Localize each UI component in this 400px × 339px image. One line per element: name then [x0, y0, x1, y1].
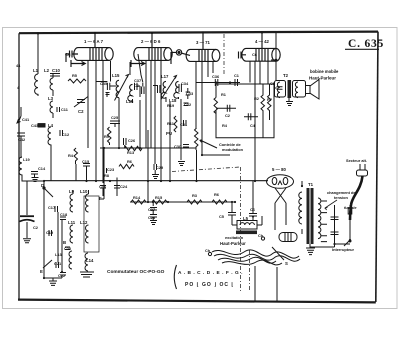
- svg-text:C27: C27: [148, 207, 155, 212]
- svg-text:R7: R7: [267, 97, 272, 102]
- svg-text:R15: R15: [155, 195, 163, 200]
- svg-text:Interrupteur: Interrupteur: [332, 247, 355, 252]
- svg-text:L14: L14: [86, 258, 94, 263]
- svg-text:Haut-Parleur: Haut-Parleur: [309, 76, 336, 81]
- svg-text:C31: C31: [180, 122, 188, 127]
- svg-text:F: F: [99, 196, 102, 201]
- svg-text:C43: C43: [31, 123, 39, 128]
- svg-text:excitation: excitation: [225, 235, 244, 240]
- svg-text:R3: R3: [192, 193, 198, 198]
- svg-text:C33: C33: [186, 91, 194, 96]
- svg-text:C24: C24: [120, 184, 128, 189]
- svg-text:C2: C2: [33, 225, 39, 230]
- svg-text:C6: C6: [65, 52, 71, 57]
- svg-text:C36: C36: [212, 74, 220, 79]
- svg-text:L15: L15: [112, 73, 120, 78]
- svg-text:C2: C2: [78, 109, 84, 114]
- svg-text:C42: C42: [18, 137, 26, 142]
- svg-text:1 — 6 A 7: 1 — 6 A 7: [84, 39, 104, 44]
- svg-text:L5: L5: [243, 216, 249, 221]
- svg-text:3 — 71: 3 — 71: [196, 40, 210, 45]
- svg-text:C4: C4: [250, 123, 256, 128]
- svg-text:C23: C23: [107, 167, 115, 172]
- svg-text:R6: R6: [214, 192, 220, 197]
- svg-text:C11: C11: [61, 107, 69, 112]
- svg-text:A . B . C . D . E . F . G .: A . B . C . D . E . F . G .: [178, 270, 243, 276]
- svg-text:Secteur alt.: Secteur alt.: [346, 158, 367, 163]
- svg-text:R1: R1: [221, 92, 227, 97]
- svg-text:C12: C12: [62, 132, 70, 137]
- svg-text:C1: C1: [234, 73, 240, 78]
- svg-text:R9: R9: [104, 134, 110, 139]
- svg-text:L16: L16: [126, 99, 134, 104]
- svg-text:C16: C16: [99, 184, 107, 189]
- svg-text:R14: R14: [133, 195, 141, 200]
- svg-text:C5: C5: [219, 214, 225, 219]
- svg-text:C15: C15: [82, 159, 90, 164]
- svg-text:L12: L12: [80, 220, 88, 225]
- svg-text:R6: R6: [127, 159, 133, 164]
- svg-text:C2: C2: [225, 113, 231, 118]
- svg-text:C26: C26: [128, 138, 136, 143]
- svg-text:L13: L13: [55, 252, 63, 257]
- svg-text:C34: C34: [181, 81, 189, 86]
- svg-text:Ch: Ch: [205, 248, 211, 253]
- svg-text:PU: PU: [166, 131, 172, 136]
- svg-text:Commutateur OC-PO-GO: Commutateur OC-PO-GO: [107, 269, 165, 275]
- svg-text:C6: C6: [250, 207, 256, 212]
- svg-text:C19: C19: [46, 230, 54, 235]
- svg-text:L19: L19: [23, 157, 31, 162]
- svg-text:C18: C18: [60, 212, 68, 217]
- svg-text:E: E: [40, 269, 43, 274]
- svg-text:D: D: [41, 183, 44, 188]
- svg-text:T1: T1: [308, 182, 314, 187]
- svg-text:L11: L11: [68, 220, 76, 225]
- svg-text:C37: C37: [134, 78, 141, 83]
- svg-text:L2: L2: [44, 68, 50, 73]
- svg-text:C30: C30: [174, 144, 181, 149]
- svg-text:R13: R13: [127, 150, 135, 155]
- svg-text:R4: R4: [222, 123, 228, 128]
- svg-text:Haut-Parleur: Haut-Parleur: [220, 241, 246, 246]
- svg-text:L3: L3: [48, 96, 54, 101]
- svg-text:R8: R8: [104, 173, 110, 178]
- svg-text:C41: C41: [22, 117, 30, 122]
- svg-text:C22: C22: [58, 273, 66, 278]
- svg-text:L17: L17: [161, 74, 169, 79]
- svg-text:4 — 42: 4 — 42: [255, 39, 269, 44]
- svg-text:S: S: [285, 261, 288, 266]
- svg-text:C35: C35: [100, 81, 108, 86]
- svg-text:T2: T2: [283, 73, 289, 78]
- svg-text:PO ⌊ GO ⌋ OC ⌊: PO ⌊ GO ⌋ OC ⌊: [185, 282, 234, 288]
- svg-text:5 — 80: 5 — 80: [272, 167, 286, 172]
- svg-text:C6: C6: [252, 52, 258, 57]
- svg-text:C32: C32: [184, 102, 192, 107]
- svg-text:Ch: Ch: [258, 233, 264, 238]
- svg-text:B: B: [63, 240, 66, 245]
- svg-text:L4: L4: [48, 123, 54, 128]
- svg-text:C10: C10: [52, 68, 60, 73]
- svg-text:bobine mobile: bobine mobile: [310, 69, 339, 74]
- svg-text:R11: R11: [167, 121, 175, 126]
- svg-text:2 — 6 D 6: 2 — 6 D 6: [141, 39, 161, 44]
- svg-text:C20: C20: [64, 246, 71, 251]
- svg-text:C5: C5: [270, 81, 276, 86]
- svg-text:C14: C14: [38, 166, 46, 171]
- svg-text:C17: C17: [48, 205, 55, 210]
- svg-text:L10: L10: [80, 189, 88, 194]
- svg-text:C29: C29: [156, 165, 164, 170]
- svg-text:R2: R2: [254, 96, 260, 101]
- svg-text:modulation: modulation: [222, 147, 244, 152]
- svg-text:L9: L9: [69, 189, 75, 194]
- svg-text:R19: R19: [167, 103, 175, 108]
- svg-text:C28: C28: [148, 215, 156, 220]
- svg-text:C25: C25: [111, 115, 119, 120]
- svg-text:C. 635: C. 635: [348, 38, 384, 50]
- svg-text:R4: R4: [68, 153, 74, 158]
- svg-text:R5: R5: [72, 73, 78, 78]
- svg-text:tension: tension: [334, 195, 348, 200]
- svg-text:C21: C21: [54, 261, 62, 266]
- svg-text:L1: L1: [33, 68, 39, 73]
